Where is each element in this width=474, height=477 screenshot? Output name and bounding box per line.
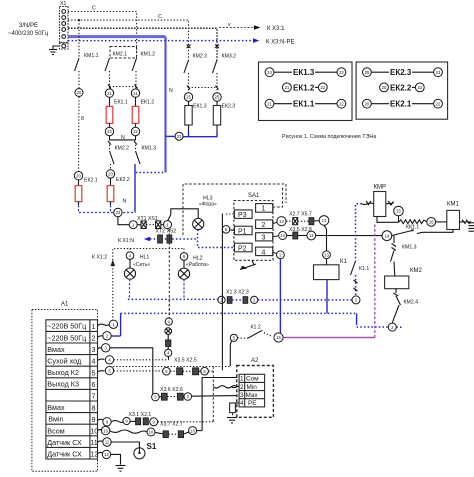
svg-text:Х3.1 Х2.1: Х3.1 Х2.1 xyxy=(129,412,152,418)
connector row XT2/XS2 with arrow to X1:N xyxy=(144,229,198,243)
svg-text:7: 7 xyxy=(92,392,96,401)
svg-text:Всом: Всом xyxy=(47,426,64,435)
node tick marks B-C link xyxy=(108,85,138,89)
terminal 2 (SA1 cell4 out) xyxy=(273,251,285,259)
wire to S1 xyxy=(111,442,139,448)
svg-text:21: 21 xyxy=(285,85,290,90)
svg-text:ЕК1.3: ЕК1.3 xyxy=(293,68,315,77)
svg-text:ЕК1.1: ЕК1.1 xyxy=(114,100,128,106)
contactor coil KM1 xyxy=(436,202,460,230)
svg-text:10: 10 xyxy=(149,430,154,435)
svg-text:3: 3 xyxy=(262,235,266,242)
connector row 5 xyxy=(163,367,214,375)
svg-text:8: 8 xyxy=(81,116,84,122)
wire joining 22-22 xyxy=(110,136,136,140)
wire blue N return of EK2 group xyxy=(79,205,136,213)
dashed link SA1 cell1 xyxy=(273,186,283,207)
wire circle5 drop xyxy=(230,341,231,366)
svg-text:SA1: SA1 xyxy=(248,193,260,199)
terminal 6 (HL2 top) xyxy=(180,249,188,261)
svg-text:ЕК1.3: ЕК1.3 xyxy=(193,104,207,110)
wire blue dotted link to N drop xyxy=(136,172,165,174)
svg-text:20: 20 xyxy=(365,101,370,106)
dashed module boundary (lamp unit) xyxy=(168,229,170,318)
sensor unit A2 box xyxy=(237,358,274,417)
svg-text:8: 8 xyxy=(92,403,96,412)
selector knob arrow xyxy=(240,260,256,269)
wire KMP bottom to thermal element xyxy=(377,217,399,223)
svg-text:Min: Min xyxy=(247,384,258,391)
terminal 25 (EK3 right top) xyxy=(213,93,221,101)
terminal 13 (K1 top) xyxy=(323,251,331,259)
svg-text:КМ2.3: КМ2.3 xyxy=(193,54,208,60)
svg-text:Х2.7 Х5.7: Х2.7 Х5.7 xyxy=(289,212,312,218)
svg-text:9: 9 xyxy=(92,415,96,424)
terminal 12 (A1) xyxy=(98,450,111,458)
terminal 21 (EK1.2 top) xyxy=(131,89,139,97)
svg-text:Х3.5 Х2.5: Х3.5 Х2.5 xyxy=(174,357,197,363)
svg-text:4: 4 xyxy=(240,400,244,407)
connector row 3 (to A2 Max) xyxy=(152,393,192,401)
svg-text:Сухой ход: Сухой ход xyxy=(47,357,82,366)
wire HL1 to bus1 (blue) xyxy=(128,279,130,299)
wire KMP left pin (blue) xyxy=(356,201,374,261)
wire blue N return of right group xyxy=(183,131,188,137)
svg-text:Выход К2: Выход К2 xyxy=(47,368,79,377)
terminal 13 (SA1 cell2 out) xyxy=(273,217,286,226)
svg-text:15: 15 xyxy=(396,209,401,214)
wire K1.2 feed riser xyxy=(221,214,223,371)
svg-text:ХТ2 ХS2: ХТ2 ХS2 xyxy=(156,229,177,235)
PE resistor link xyxy=(230,403,240,417)
svg-text:22: 22 xyxy=(133,129,138,134)
svg-text:6: 6 xyxy=(92,380,96,389)
controller A1 outer box xyxy=(32,302,98,472)
svg-text:Max: Max xyxy=(246,392,259,399)
terminal 4 (A1) xyxy=(98,356,114,364)
svg-text:21: 21 xyxy=(107,91,112,96)
svg-text:К1.2: К1.2 xyxy=(251,325,261,331)
svg-text:ЕК2.1: ЕК2.1 xyxy=(390,100,412,109)
EK2 heater bank box xyxy=(356,62,448,119)
svg-text:20: 20 xyxy=(76,173,81,178)
bus2 blue dotted (neutral) xyxy=(121,313,389,336)
wire A1-2 to bus2 (blue) xyxy=(111,335,120,337)
svg-text:15: 15 xyxy=(276,335,281,340)
contactor coil KMP xyxy=(374,192,386,217)
svg-text:С: С xyxy=(158,14,162,20)
wire KM1.3 to N (blue) xyxy=(134,164,136,213)
wire K1 to bus2 (blue) xyxy=(326,280,328,314)
interlock dotted link B-C xyxy=(110,86,137,88)
svg-text:ЕК2.3: ЕК2.3 xyxy=(390,68,412,77)
svg-text:21: 21 xyxy=(133,91,138,96)
svg-text:3/N/PE: 3/N/PE xyxy=(19,23,38,29)
contact KM1.3 (chain down) xyxy=(391,236,417,276)
wire HL3 to P2 (blue dotted) xyxy=(198,230,235,248)
wire L3 continuation arrow to X3 xyxy=(219,25,285,32)
wire circle23 to XT1 row xyxy=(118,217,129,225)
svg-text:ЕК2.2: ЕК2.2 xyxy=(390,83,412,92)
wire magenta K1.2 to KMP xyxy=(284,222,375,337)
svg-text:~220В 50Гц: ~220В 50Гц xyxy=(47,333,86,342)
ground symbol (A1) xyxy=(116,466,126,472)
svg-text:S1: S1 xyxy=(147,442,157,451)
svg-text:10: 10 xyxy=(103,428,108,433)
heater EK2.2 (red) xyxy=(107,178,114,205)
terminal 11 (A1) xyxy=(98,438,112,446)
bus1 blue dotted (switched phase) xyxy=(128,298,218,300)
terminal 15 (KMP out) xyxy=(394,206,404,216)
dotted row pair upper xyxy=(113,366,230,368)
blue stub right of terminal xyxy=(396,326,403,328)
controller A1 terminal table xyxy=(46,320,98,459)
tick marks D-E xyxy=(187,86,219,90)
bus L3 (third phase wire) xyxy=(68,28,217,60)
contact K1.2 row xyxy=(230,330,283,342)
terminal 2 (end of bus1) xyxy=(352,296,360,304)
selector switch SA1 xyxy=(234,193,273,260)
svg-text:23: 23 xyxy=(436,70,441,75)
sensor chain riser (dry-run) xyxy=(165,299,173,359)
svg-text:N: N xyxy=(123,199,127,205)
terminal 5 (P1 left) xyxy=(222,226,234,234)
svg-text:К1: К1 xyxy=(340,259,347,265)
svg-text:20: 20 xyxy=(77,90,82,95)
svg-text:К Х3:N-РЕ: К Х3:N-РЕ xyxy=(266,40,295,46)
terminal 2 (KM2 return) xyxy=(388,323,396,331)
relay coil K1 xyxy=(314,259,348,280)
svg-text:2: 2 xyxy=(240,384,244,391)
svg-text:3: 3 xyxy=(240,392,244,399)
interlock dotted link D-E xyxy=(189,87,218,89)
svg-text:К Х1:2: К Х1:2 xyxy=(92,255,107,261)
svg-text:«Сеть»: «Сеть» xyxy=(133,262,150,268)
svg-text:ЕК1.2: ЕК1.2 xyxy=(293,83,315,92)
terminal 10 (A1) xyxy=(98,426,110,434)
bus L1 (top phase wire) xyxy=(68,12,137,59)
wire Min into table xyxy=(231,386,239,388)
svg-text:Вмin: Вмin xyxy=(48,415,63,424)
svg-text:PE: PE xyxy=(248,400,257,407)
svg-text:4: 4 xyxy=(262,249,266,256)
svg-text:21: 21 xyxy=(267,101,272,106)
svg-text:Выход К3: Выход К3 xyxy=(47,380,79,389)
wire A1-5 dotted xyxy=(114,370,162,372)
wire A1-12 to ground xyxy=(111,454,121,464)
svg-text:N: N xyxy=(169,88,173,94)
wire cell2 drop to K1 xyxy=(324,225,327,251)
svg-text:23: 23 xyxy=(177,134,182,139)
lamp HL2 Работа xyxy=(178,256,209,280)
terminal 22 (EK1.2 bottom) xyxy=(131,127,139,135)
wire N vertical drop xyxy=(164,37,166,173)
svg-text:13: 13 xyxy=(324,253,329,258)
svg-text:14: 14 xyxy=(280,233,285,238)
interlock box KM2.1 label xyxy=(110,47,137,59)
terminal 9 (A1) xyxy=(98,418,112,426)
svg-text:ЕК2.1: ЕК2.1 xyxy=(84,178,98,184)
connector row 10 xyxy=(110,427,202,438)
supply label 3/N/PE ~400/230 50Hz xyxy=(8,23,49,37)
svg-text:КМ2: КМ2 xyxy=(410,268,422,274)
bus L2 (second phase wire) xyxy=(68,20,189,60)
contact KM2.4 xyxy=(392,289,418,323)
terminal block X1 xyxy=(60,1,69,49)
svg-text:1: 1 xyxy=(240,376,244,383)
svg-text:13: 13 xyxy=(279,219,284,224)
svg-text:К1.1: К1.1 xyxy=(359,266,369,272)
wire HL2 to bus1 (blue) xyxy=(183,279,185,299)
svg-text:4: 4 xyxy=(92,357,96,366)
svg-text:КМ1.2: КМ1.2 xyxy=(141,52,156,58)
svg-text:HL2: HL2 xyxy=(193,256,203,262)
svg-text:16: 16 xyxy=(429,220,434,225)
svg-text:КМ1.1: КМ1.1 xyxy=(84,53,99,59)
wire A1-3 right and down to X3.6 row xyxy=(110,348,153,397)
terminal 21 (EK1.1 top) xyxy=(105,89,113,97)
svg-text:12: 12 xyxy=(90,450,98,459)
contact K1.1 xyxy=(351,261,370,296)
wire KM1 bottom loop xyxy=(423,230,453,233)
svg-text:КМ3.2: КМ3.2 xyxy=(222,54,237,60)
terminal 20 (KM1.1 out) xyxy=(75,89,83,97)
svg-text:КМ2.4: КМ2.4 xyxy=(404,300,419,306)
svg-text:КМ1: КМ1 xyxy=(447,202,459,208)
svg-text:Датчик СХ: Датчик СХ xyxy=(47,438,82,447)
svg-text:ЕК1.2: ЕК1.2 xyxy=(141,100,155,106)
bus N (thick blue neutral) xyxy=(68,35,166,38)
contact KM1 aux xyxy=(392,228,423,236)
dashed riser to A2 Min xyxy=(212,366,214,422)
terminal 3 (A1) xyxy=(98,344,110,352)
svg-text:К Х1:N: К Х1:N xyxy=(118,238,134,244)
PE wire to ground xyxy=(53,46,60,49)
svg-text:25: 25 xyxy=(215,95,220,100)
heater EK2.1 (red) xyxy=(75,180,82,205)
svg-text:22: 22 xyxy=(436,101,441,106)
terminal 22 (EK1.1 bottom) xyxy=(105,127,113,135)
svg-text:22: 22 xyxy=(320,85,325,90)
terminal 1 (A1) xyxy=(98,320,118,328)
wire N riser to HL3 xyxy=(168,209,198,221)
svg-text:13: 13 xyxy=(322,218,327,223)
svg-text:Вмах: Вмах xyxy=(47,345,65,354)
float switch S1 xyxy=(134,442,157,459)
svg-text:1: 1 xyxy=(92,322,96,331)
svg-text:~220В 50Гц: ~220В 50Гц xyxy=(47,322,86,331)
svg-text:N: N xyxy=(121,135,125,141)
svg-text:2: 2 xyxy=(262,222,266,229)
svg-text:20: 20 xyxy=(382,85,387,90)
svg-text:22: 22 xyxy=(417,85,422,90)
svg-text:КМ1.3: КМ1.3 xyxy=(402,245,417,251)
svg-text:Х3.6 Х2.6: Х3.6 Х2.6 xyxy=(160,387,183,393)
heater EK1.2 (red) xyxy=(132,97,139,127)
svg-text:~400/230 50Гц: ~400/230 50Гц xyxy=(8,31,49,37)
heater EK2.3 (black) xyxy=(213,101,220,131)
svg-text:А1: А1 xyxy=(61,302,69,308)
terminal 23 (right group) xyxy=(175,132,183,140)
svg-text:14: 14 xyxy=(309,233,314,238)
ground symbol (A2 PE) xyxy=(227,418,237,423)
terminal 4 (HL1 top) xyxy=(126,249,134,260)
svg-text:11: 11 xyxy=(105,440,110,445)
svg-text:ЕК2.3: ЕК2.3 xyxy=(222,104,236,110)
contact KM1.3 xyxy=(136,145,157,164)
tick marks on join xyxy=(108,141,137,145)
svg-text:С: С xyxy=(92,6,96,12)
svg-text:22: 22 xyxy=(107,129,112,134)
svg-text:20: 20 xyxy=(108,172,113,177)
heater EK1.1 (red) xyxy=(106,97,113,127)
lamp HL1 Сеть xyxy=(124,255,150,280)
svg-text:24: 24 xyxy=(267,70,272,75)
svg-text:2: 2 xyxy=(92,334,96,343)
heater EK1.3 (black) xyxy=(185,101,192,131)
svg-text:HL1: HL1 xyxy=(140,255,150,261)
svg-text:25: 25 xyxy=(186,95,191,100)
svg-text:ЕК2.2: ЕК2.2 xyxy=(116,177,130,183)
connector row 9 xyxy=(111,417,213,425)
svg-text:23: 23 xyxy=(339,70,344,75)
wire KM1 right to edge with main contacts xyxy=(460,220,474,232)
svg-text:Рисунок 1. Схема подключения Т: Рисунок 1. Схема подключения ТЭНа xyxy=(282,134,376,140)
thermal element KK1 zigzag xyxy=(399,220,427,231)
terminal 25 (EK3 left top) xyxy=(184,93,192,101)
contact KM2.3 (right heater group) xyxy=(184,45,207,94)
svg-text:А2: А2 xyxy=(251,358,259,364)
svg-text:«Работа»: «Работа» xyxy=(186,262,209,268)
wire lamp supply riser (to X1:2) with arrow xyxy=(111,249,184,325)
svg-text:10: 10 xyxy=(90,427,98,436)
svg-text:КМ2.2: КМ2.2 xyxy=(115,146,130,152)
contact KM1.1 xyxy=(75,20,99,88)
bus N-PE dotted blue with arrow xyxy=(68,38,295,45)
contact KM3.2 xyxy=(213,45,237,94)
bus1 continuation xyxy=(258,299,352,301)
wire Min wavy to A2 xyxy=(213,386,237,388)
connector row 14 xyxy=(287,231,316,240)
svg-text:1: 1 xyxy=(262,206,266,213)
connector row XT1/XS1 xyxy=(129,221,171,229)
svg-text:22: 22 xyxy=(339,101,344,106)
connector row 13 xyxy=(286,216,329,226)
svg-text:11: 11 xyxy=(90,438,97,447)
svg-text:P3: P3 xyxy=(238,212,247,219)
wire KM1.1 down to EK2.1 xyxy=(78,97,81,172)
terminal 2 (A1) xyxy=(98,332,112,340)
contact KM1.2 xyxy=(132,52,155,90)
terminal 14 (SA1 cell3 out) xyxy=(273,232,287,240)
dashed panel box (SA1/HL3 door) xyxy=(183,184,286,235)
svg-text:«Фаза»: «Фаза» xyxy=(199,202,217,208)
svg-text:ЕК1.1: ЕК1.1 xyxy=(293,100,315,109)
terminal 23 xyxy=(114,208,122,216)
contact KM2.2 xyxy=(110,145,130,170)
terminal 20 (EK2.1 top) xyxy=(74,172,82,180)
svg-text:ХТ1 ХS1: ХТ1 ХS1 xyxy=(137,216,158,222)
svg-text:12: 12 xyxy=(104,452,109,457)
terminal 16 xyxy=(427,218,436,227)
svg-text:P1: P1 xyxy=(238,228,247,235)
svg-text:14: 14 xyxy=(385,233,390,238)
wire KMP right pin xyxy=(386,201,394,206)
wire row14 to relay chain xyxy=(316,235,382,237)
svg-text:3: 3 xyxy=(92,345,96,354)
wire blue terminal to N drop xyxy=(166,135,176,137)
wire SA1-2 down to K1.2 row (blue) xyxy=(279,259,281,334)
svg-text:КМ1.3: КМ1.3 xyxy=(142,146,157,152)
svg-text:10: 10 xyxy=(190,428,195,433)
terminal 5 (A1) xyxy=(98,366,114,374)
svg-text:Вмах: Вмах xyxy=(47,403,65,412)
svg-text:Датчик СХ: Датчик СХ xyxy=(47,450,82,459)
dotted stub left of P3 xyxy=(226,213,235,215)
node L2/KM1.1 branch xyxy=(78,19,80,21)
svg-text:Х1:3 Х2:3: Х1:3 Х2:3 xyxy=(226,290,249,296)
svg-text:К Х3:1: К Х3:1 xyxy=(267,26,285,32)
svg-text:КМ2.1: КМ2.1 xyxy=(113,52,128,58)
terminal 20 (EK2.2 top) xyxy=(106,170,114,178)
wire to A2 Max xyxy=(192,395,238,398)
connector pair X1:3 X2:3 on bus1 xyxy=(218,290,258,304)
wire A1-4 dotted to sensor chain xyxy=(114,359,169,361)
svg-text:5: 5 xyxy=(92,368,96,377)
A2 terminal table xyxy=(239,374,265,407)
svg-text:P2: P2 xyxy=(238,245,247,252)
svg-text:v: v xyxy=(228,22,231,28)
terminal 14 (relay chain) xyxy=(382,231,392,241)
svg-text:25: 25 xyxy=(365,70,370,75)
svg-text:Сом: Сом xyxy=(246,376,259,383)
contactor coil KM2 xyxy=(385,268,423,289)
EK1 heater bank box xyxy=(259,62,353,121)
ground symbol (supply PE) xyxy=(49,50,57,55)
wire EK2.2 bottom drop xyxy=(110,205,112,213)
svg-text:23: 23 xyxy=(116,210,121,215)
svg-text:Х3.7 Х2.7: Х3.7 Х2.7 xyxy=(160,422,183,428)
contact KM2.1 xyxy=(105,58,110,89)
svg-text:КМР: КМР xyxy=(374,185,387,191)
wire Com riser to A2 xyxy=(202,378,237,431)
lamp HL3 xyxy=(193,196,217,230)
